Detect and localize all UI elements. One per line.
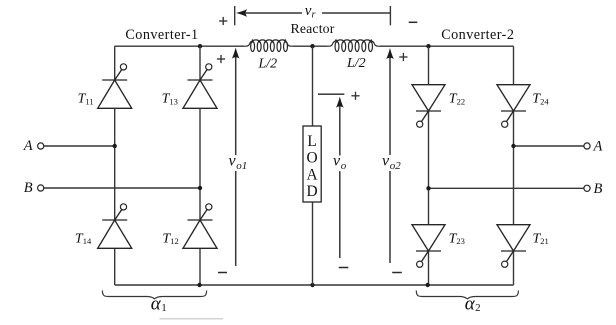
svg-text:B: B — [24, 180, 33, 196]
svg-text:A: A — [23, 138, 33, 154]
svg-text:L/2: L/2 — [258, 57, 278, 72]
svg-text:A: A — [307, 166, 318, 183]
svg-text:B: B — [594, 181, 603, 197]
svg-text:Reactor: Reactor — [291, 21, 335, 36]
svg-text:L/2: L/2 — [346, 56, 366, 71]
svg-text:A: A — [593, 138, 603, 154]
svg-text:O: O — [307, 150, 318, 167]
svg-text:Converter-1: Converter-1 — [125, 27, 198, 43]
svg-text:L: L — [307, 133, 316, 150]
svg-text:Converter-2: Converter-2 — [441, 27, 514, 43]
svg-text:D: D — [307, 183, 318, 200]
